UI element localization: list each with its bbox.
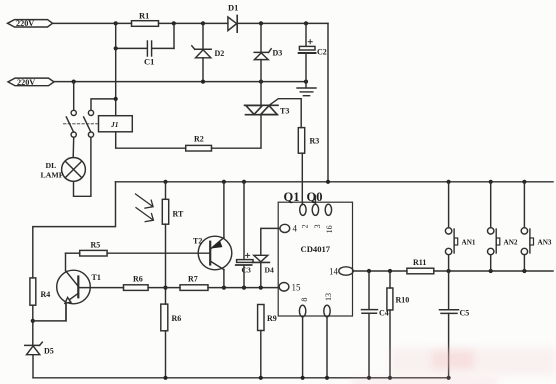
node C2 bottom xyxy=(304,80,308,84)
pin 8 oval xyxy=(299,305,305,317)
transistor T2 xyxy=(193,236,232,270)
wire T2 bottom to node xyxy=(223,270,225,288)
wire pin13 to bottom bus xyxy=(326,317,328,378)
diode D1 xyxy=(228,3,238,33)
node AN3 bottom xyxy=(522,269,526,273)
resistor R5 xyxy=(66,241,108,257)
pin 2 oval xyxy=(300,204,306,215)
node rail pin16 xyxy=(326,180,330,184)
wire emitter link xyxy=(33,304,66,321)
wire R5 to T2 base xyxy=(107,252,210,254)
wire D1 to top-right corner xyxy=(237,22,328,24)
zener D3 xyxy=(254,23,282,81)
node R10 bottom xyxy=(388,376,392,380)
capacitor C5 xyxy=(440,271,470,378)
diode D4 xyxy=(252,228,280,287)
wire R3 to pin2 (Q1) xyxy=(301,153,303,204)
push button AN1 xyxy=(445,182,475,271)
wire R11 to right xyxy=(434,270,553,272)
wire triac gate to R3 xyxy=(270,99,301,128)
lamp DL xyxy=(41,137,91,196)
svg-text:R7: R7 xyxy=(188,275,198,284)
push button AN3 xyxy=(521,182,552,271)
svg-text:D1: D1 xyxy=(228,3,238,13)
svg-text:2: 2 xyxy=(300,224,309,228)
mains flag 220V top xyxy=(8,19,53,28)
wire triac bottom to R2 xyxy=(212,115,262,149)
node top-left junction xyxy=(114,21,118,25)
watermark remnant xyxy=(352,348,556,384)
mains flag 220V bottom xyxy=(8,78,54,87)
svg-text:C1: C1 xyxy=(144,57,154,67)
node C3 bottom xyxy=(242,286,246,290)
svg-text:LAMP: LAMP xyxy=(41,171,64,180)
resistor R3 xyxy=(298,128,319,154)
svg-text:R11: R11 xyxy=(413,258,426,267)
thermistor RT xyxy=(162,182,184,304)
bottom bus xyxy=(33,377,449,379)
svg-text:D5: D5 xyxy=(44,347,54,356)
node R6 bottom xyxy=(163,376,167,380)
wire R4 to emitter node xyxy=(32,305,34,345)
svg-text:R4: R4 xyxy=(41,290,51,299)
resistor R7 xyxy=(180,275,208,291)
pin 4 oval xyxy=(280,224,290,232)
svg-text:4: 4 xyxy=(293,224,298,234)
node D3 top junction xyxy=(259,21,263,25)
ground xyxy=(297,88,316,96)
zener D5 xyxy=(25,342,54,378)
node D4/R9 xyxy=(259,286,263,290)
switch S2 xyxy=(84,99,116,137)
node D2 bottom xyxy=(201,80,205,84)
node C5 bottom corner xyxy=(447,376,451,380)
svg-text:RT: RT xyxy=(173,210,184,219)
wire J1 to R2 xyxy=(116,132,186,148)
node T2 emitter bottom xyxy=(222,286,226,290)
node D2 top junction xyxy=(201,21,205,25)
svg-text:J1: J1 xyxy=(110,120,119,129)
switch S1 xyxy=(66,82,76,138)
resistor R6 horizontal xyxy=(124,275,149,291)
node RT/R6 junction xyxy=(163,286,167,290)
svg-text:AN3: AN3 xyxy=(538,239,552,247)
base wire T1 xyxy=(78,287,123,289)
wire neutral line to ground node xyxy=(54,81,306,83)
svg-text:T1: T1 xyxy=(92,273,101,282)
pin 15 oval xyxy=(279,283,289,292)
node emitter junction xyxy=(31,319,35,323)
node AN2 top xyxy=(489,180,493,184)
node T2 collector top xyxy=(222,180,226,184)
relay J1 xyxy=(99,116,133,132)
capacitor C1 xyxy=(116,23,174,66)
pin 16 oval xyxy=(325,204,331,215)
node R10 top xyxy=(388,269,392,273)
svg-text:D2: D2 xyxy=(215,49,225,58)
pin 14 oval xyxy=(339,267,353,275)
resistor R10 xyxy=(387,271,409,378)
svg-text:16: 16 xyxy=(325,225,334,233)
wire T1 collector up to R5 xyxy=(65,253,67,271)
wire R6 to node xyxy=(148,287,180,289)
svg-text:D4: D4 xyxy=(265,266,274,275)
svg-text:15: 15 xyxy=(292,283,302,293)
resistor R2 xyxy=(186,135,212,152)
main positive bus xyxy=(116,181,554,183)
switch linkage dashed xyxy=(64,123,98,125)
resistor R6 vertical xyxy=(161,304,181,378)
svg-text:T2: T2 xyxy=(193,237,202,246)
node AN2 bottom xyxy=(489,269,493,273)
resistor R9 xyxy=(258,305,277,378)
svg-text:R3: R3 xyxy=(310,137,320,146)
resistor R11 xyxy=(407,258,434,274)
capacitor C3 polarized xyxy=(236,182,253,288)
wire D3 node to triac top xyxy=(260,82,262,106)
svg-text:C2: C2 xyxy=(317,48,327,57)
node C1 left junction xyxy=(114,46,118,50)
wire pin8 to bottom bus xyxy=(302,317,304,378)
wire left vertical to J1 xyxy=(115,23,117,115)
svg-text:D3: D3 xyxy=(273,49,283,58)
node RT top xyxy=(163,180,167,184)
svg-text:R5: R5 xyxy=(91,241,101,250)
svg-text:R1: R1 xyxy=(139,11,149,21)
svg-text:3: 3 xyxy=(313,224,322,228)
wire pin14 net xyxy=(353,270,407,272)
svg-text:R6: R6 xyxy=(133,275,143,284)
capacitor C2 polarized xyxy=(299,23,327,87)
node pin13 bottom xyxy=(325,376,329,380)
node D3 bottom xyxy=(259,80,263,84)
svg-text:Q1: Q1 xyxy=(284,190,300,204)
svg-text:220V: 220V xyxy=(16,19,34,28)
svg-text:R2: R2 xyxy=(194,135,204,144)
zener D2 xyxy=(192,23,224,81)
node pin8 bottom xyxy=(301,376,305,380)
wire right vertical rail xyxy=(327,23,329,181)
node C4 bottom xyxy=(367,376,371,380)
svg-text:AN2: AN2 xyxy=(504,239,518,247)
svg-text:Q0: Q0 xyxy=(307,190,323,204)
svg-text:220V: 220V xyxy=(17,78,35,87)
svg-text:AN1: AN1 xyxy=(462,239,476,247)
node AN1 bottom xyxy=(447,269,451,273)
node C3 top xyxy=(242,180,246,184)
node C4 top xyxy=(367,269,371,273)
svg-text:R10: R10 xyxy=(396,296,410,305)
resistor R4 xyxy=(30,278,50,305)
node switch feed xyxy=(72,80,76,84)
capacitor C4 xyxy=(362,271,389,378)
svg-text:8: 8 xyxy=(300,298,309,302)
IC CD4017 xyxy=(278,202,352,316)
svg-text:C5: C5 xyxy=(460,309,470,318)
node R1-C1 junction xyxy=(172,21,176,25)
bus left drop to R4 xyxy=(33,182,116,278)
svg-text:14: 14 xyxy=(329,267,339,277)
svg-text:R9: R9 xyxy=(267,314,277,323)
svg-text:C3: C3 xyxy=(242,266,251,275)
wire R1 to D1 xyxy=(159,22,228,24)
node AN1 top xyxy=(447,180,451,184)
transistor T1 xyxy=(57,270,101,321)
node J1 feed xyxy=(114,97,118,101)
svg-text:13: 13 xyxy=(324,293,333,301)
node R9 bottom xyxy=(259,376,263,380)
push button AN2 xyxy=(488,182,518,271)
svg-text:T3: T3 xyxy=(280,107,289,116)
wire T2 top to bus xyxy=(223,182,225,238)
pin 13 oval xyxy=(324,305,330,317)
wire top mains to R1 xyxy=(53,22,132,24)
triac T3 xyxy=(245,105,290,115)
svg-text:CD4017: CD4017 xyxy=(301,244,331,254)
node C2 top junction xyxy=(304,21,308,25)
photo arrows xyxy=(136,194,154,222)
resistor R1 xyxy=(132,11,159,27)
pin 3 oval xyxy=(312,204,318,215)
wire R7 to pin15 xyxy=(208,287,279,289)
svg-text:DL: DL xyxy=(46,161,57,170)
svg-text:R6: R6 xyxy=(172,314,182,323)
node AN3 top xyxy=(522,180,526,184)
